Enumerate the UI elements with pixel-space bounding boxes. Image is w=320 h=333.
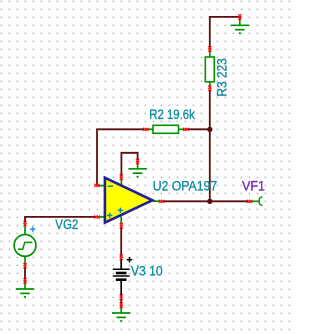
svg-text:U2 OPA197: U2 OPA197 <box>153 179 218 194</box>
svg-text:VF1: VF1 <box>242 179 265 194</box>
svg-text:R2 19.6k: R2 19.6k <box>149 107 195 122</box>
svg-text:VG2: VG2 <box>55 217 78 232</box>
svg-text:R3 223: R3 223 <box>214 58 229 96</box>
svg-text:V3 10: V3 10 <box>131 263 163 278</box>
